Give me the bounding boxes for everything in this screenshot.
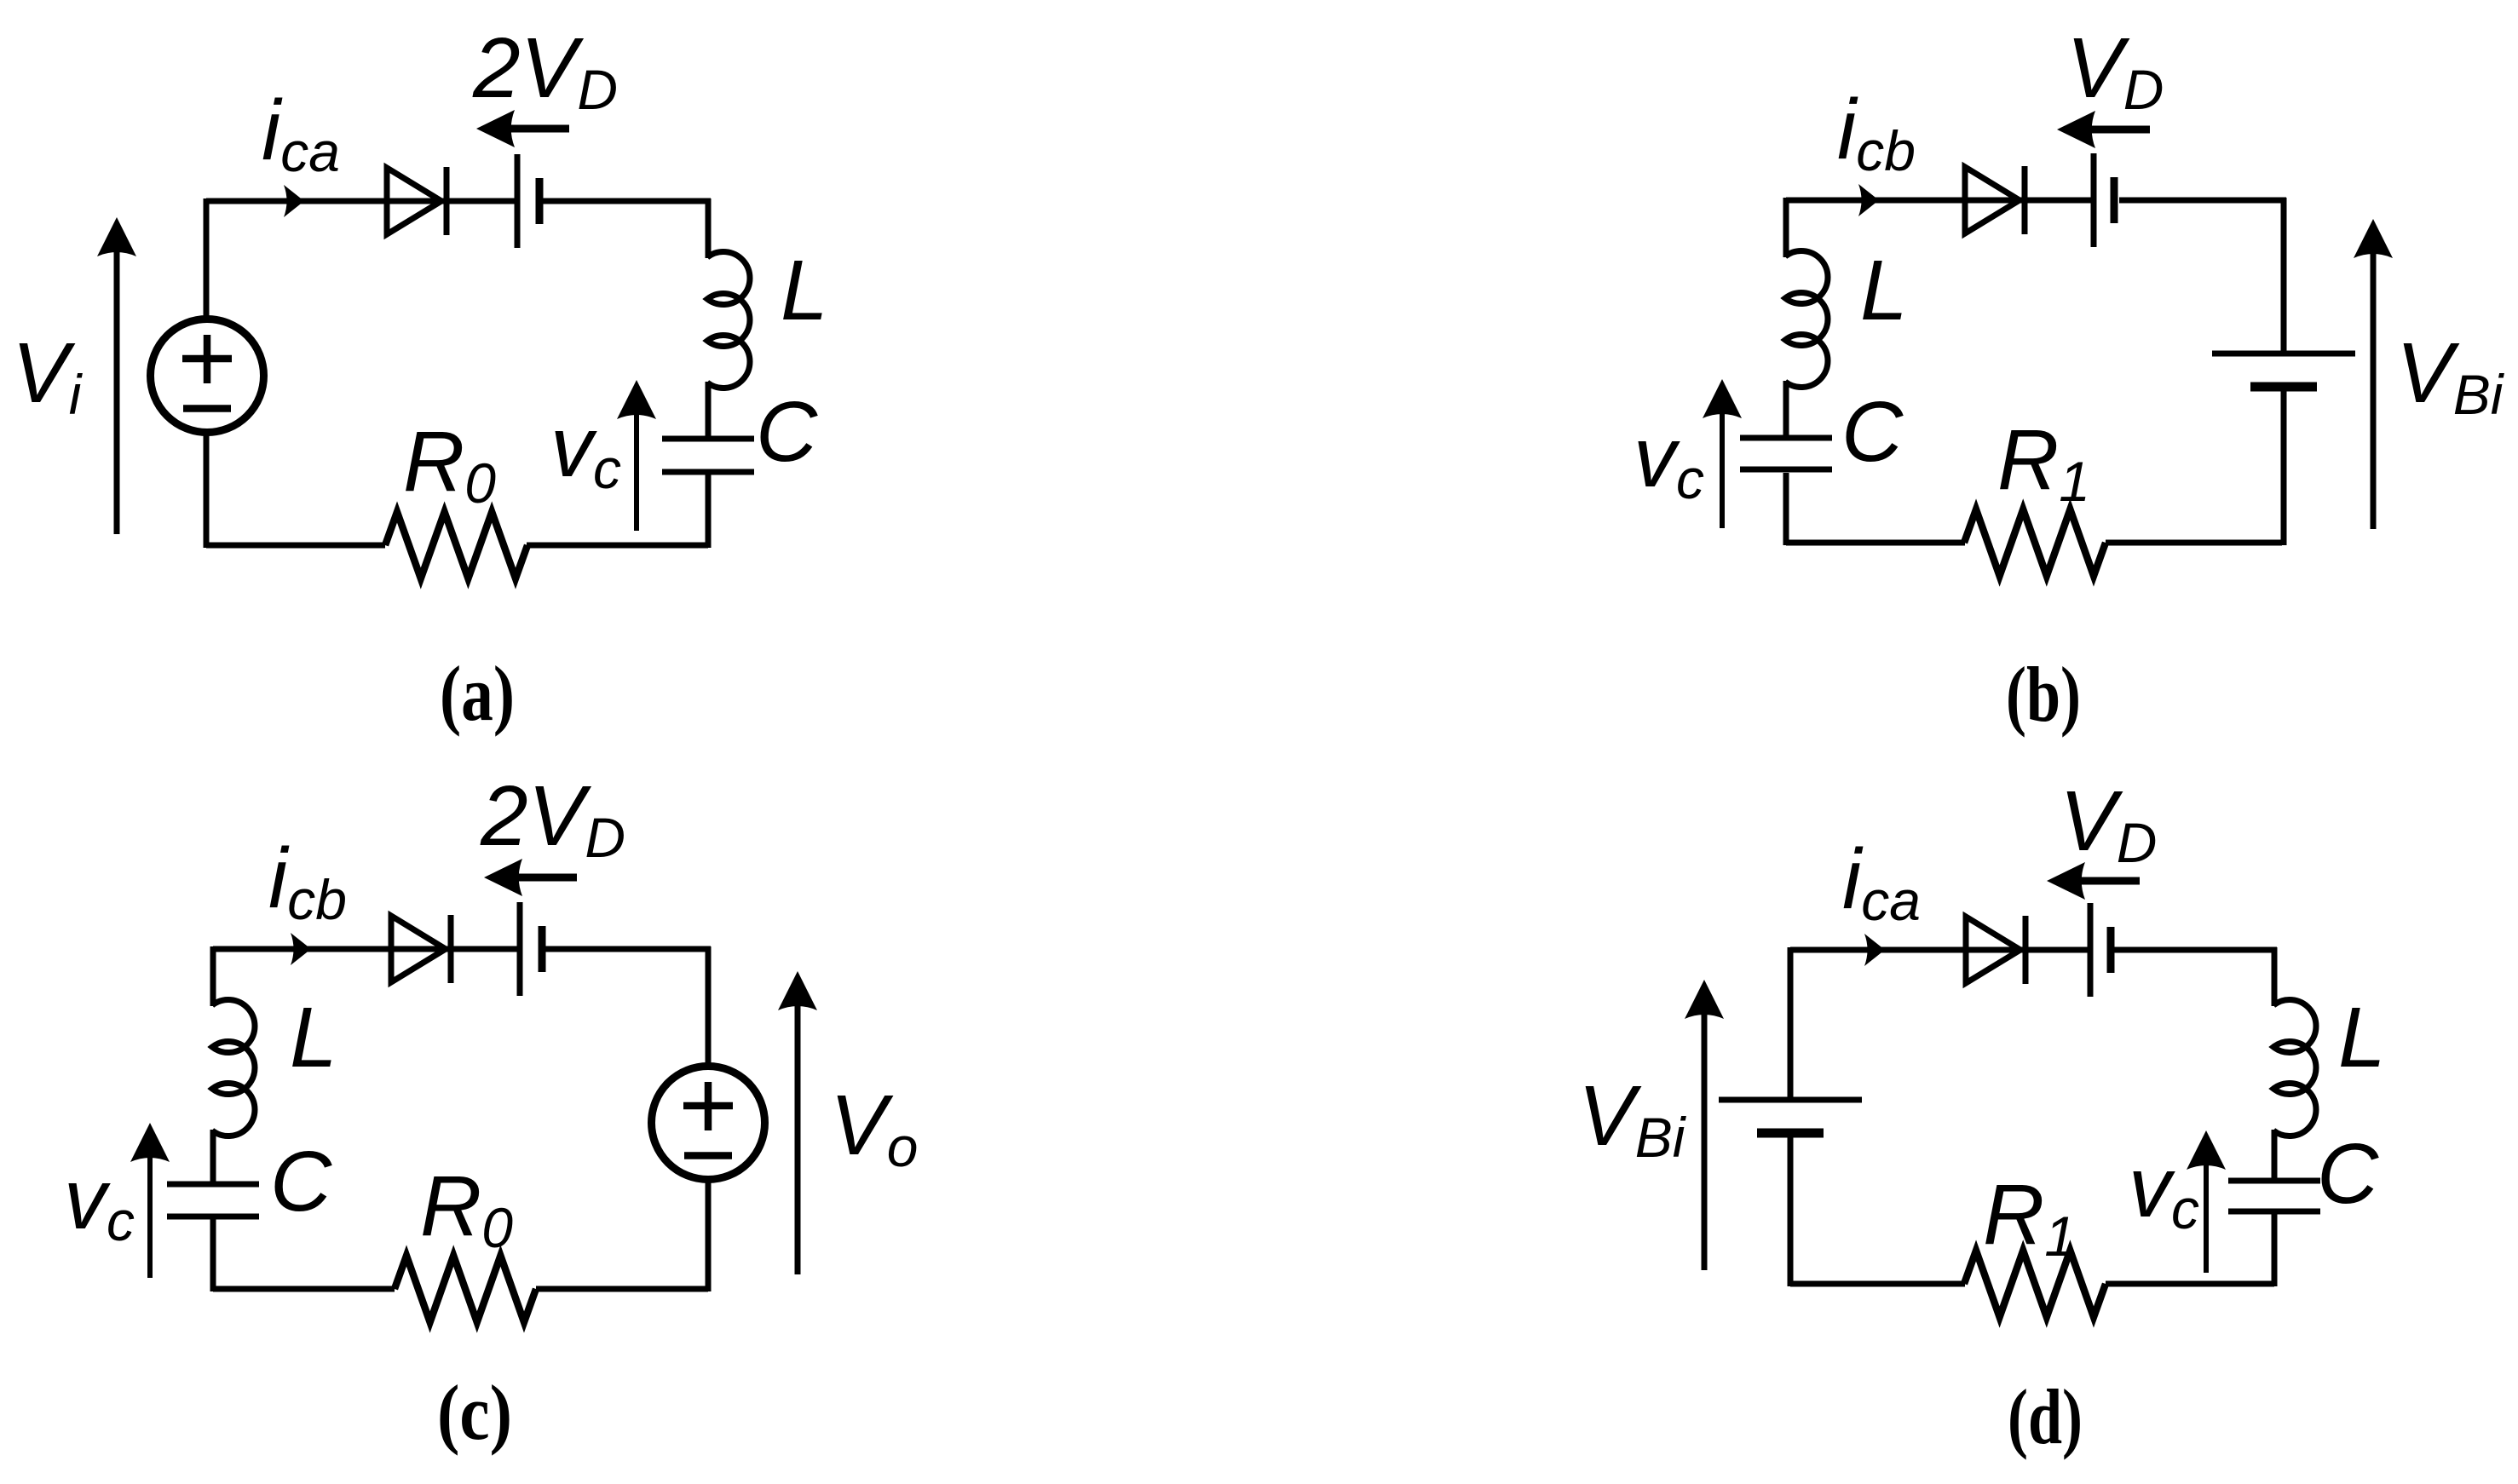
battery cell VD (diode drop source) xyxy=(2090,903,2111,997)
svg-text:L: L xyxy=(290,990,337,1085)
wire: (d) right wire mid (inductor to capacitor) xyxy=(2272,1130,2278,1178)
source Vi (independent voltage source, + top) xyxy=(151,319,264,433)
wire: (d) bottom wire right segment xyxy=(2106,1281,2274,1287)
wire: (b) left wire lower (capacitor to bottom) xyxy=(1783,473,1789,545)
wire: (b) left wire upper (to inductor) xyxy=(1783,198,1789,257)
svg-text:(b): (b) xyxy=(2006,651,2081,738)
inductor L xyxy=(1785,250,1828,387)
svg-text:(c): (c) xyxy=(437,1369,512,1456)
wire: (b) bottom wire left segment xyxy=(1786,540,1965,546)
svg-text:C: C xyxy=(270,1134,332,1229)
wire: (d) top wire left segment xyxy=(1790,947,2088,953)
wire: (b) right wire lower (battery to bottom) xyxy=(2281,390,2287,545)
capacitor C xyxy=(167,1184,259,1217)
arrow: v_c voltage reference (up) xyxy=(617,380,656,531)
arrow: current i_ca direction xyxy=(1864,934,1885,966)
wire: (c) left wire upper (to inductor) xyxy=(210,946,216,1006)
resistor R0 xyxy=(385,512,527,578)
wire: (a) bottom wire right segment xyxy=(527,543,708,549)
diode D (series diode, anode left) xyxy=(1966,916,2025,984)
wire: (b) top wire right segment xyxy=(2119,198,2286,204)
wire: (c) right wire lower (source to bottom) xyxy=(706,1180,712,1291)
battery VBi (storage battery) xyxy=(1719,1100,1862,1133)
resistor R1 xyxy=(1964,509,2106,576)
arrow: 2VD polarity (points left) xyxy=(484,859,577,896)
wire: (c) bottom wire right segment xyxy=(536,1286,708,1292)
diode D (series diode, anode left) xyxy=(1965,166,2025,234)
arrow: current i_cb direction xyxy=(1858,184,1879,216)
source Vo (output source, + top) xyxy=(652,1067,765,1180)
wire: (c) left wire lower (capacitor to bottom) xyxy=(210,1219,216,1291)
wire: (c) top wire right segment xyxy=(545,946,711,952)
wire: (a) right wire lower (capacitor to bottom) xyxy=(706,475,712,548)
wire: (c) left wire mid (inductor to capacitor) xyxy=(210,1130,216,1182)
diode D (series diode, anode left) xyxy=(387,167,447,235)
arrow: current i_ca direction xyxy=(284,185,304,217)
arrow: VD polarity (points left) xyxy=(2057,111,2150,148)
wire: (b) top wire left segment xyxy=(1786,198,2091,204)
wire: (d) bottom wire left segment xyxy=(1790,1281,1965,1287)
wire: (b) bottom wire right segment xyxy=(2106,540,2282,546)
svg-text:C: C xyxy=(1841,384,1904,480)
svg-text:C: C xyxy=(756,384,818,480)
battery cell VD (diode drop source) xyxy=(2094,153,2114,247)
battery cell 2VD (diode drop source) xyxy=(520,902,542,996)
battery cell 2VD (diode drop source) xyxy=(517,154,539,248)
arrow: v_c voltage reference (up) xyxy=(2187,1130,2226,1273)
arrow: VD polarity (points left) xyxy=(2047,862,2140,900)
svg-text:(a): (a) xyxy=(440,650,515,737)
resistor R1 xyxy=(1964,1251,2106,1317)
wire: (a) right wire mid (inductor to capacitor) xyxy=(706,382,712,436)
svg-text:(d): (d) xyxy=(2008,1373,2083,1460)
svg-text:L: L xyxy=(781,243,828,338)
wire: (d) right wire lower (capacitor to bottom) xyxy=(2272,1214,2278,1286)
wire: (a) top wire right segment xyxy=(543,198,711,204)
wire: (a) bottom wire left segment xyxy=(206,543,385,549)
svg-text:L: L xyxy=(1860,243,1908,338)
wire: (a) left wire upper (source Vi top lead) xyxy=(204,198,210,318)
wire: (c) right wire upper (to source Vo) xyxy=(706,946,712,1067)
arrow: current i_cb direction xyxy=(291,933,311,965)
capacitor C xyxy=(2228,1181,2320,1211)
wire: (a) left wire lower (source Vi bottom lead) xyxy=(204,434,210,548)
wire: (c) top wire left segment xyxy=(213,946,517,952)
inductor L xyxy=(2273,999,2316,1136)
arrow: Vi voltage reference (up) xyxy=(97,217,136,534)
diode D (series diode, anode left) xyxy=(391,915,451,983)
arrow: v_c voltage reference (up) xyxy=(130,1123,170,1278)
wire: (d) right wire upper (to inductor) xyxy=(2272,947,2278,1006)
inductor L xyxy=(707,252,750,388)
capacitor C xyxy=(1740,438,1832,469)
arrow: Vo voltage reference (up) xyxy=(778,971,817,1274)
arrow: VBi voltage reference (up) xyxy=(2354,219,2393,529)
svg-text:C: C xyxy=(2317,1126,2379,1222)
wire: (c) bottom wire left segment xyxy=(213,1286,395,1292)
inductor L xyxy=(212,999,255,1136)
wire: (d) top wire right segment xyxy=(2114,947,2277,953)
capacitor C xyxy=(662,439,754,472)
arrow: v_c voltage reference (up) xyxy=(1703,379,1742,528)
wire: (d) left wire upper (to battery VBi) xyxy=(1788,947,1794,1097)
wire: (a) right wire upper (to inductor) xyxy=(706,198,712,258)
wire: (b) left wire mid (inductor to capacitor) xyxy=(1783,381,1789,435)
svg-text:L: L xyxy=(2338,990,2386,1085)
arrow: VBi voltage reference (up) xyxy=(1685,980,1724,1270)
resistor R0 xyxy=(395,1256,536,1322)
wire: (d) left wire lower (battery to bottom) xyxy=(1788,1136,1794,1286)
wire: (a) top wire left segment xyxy=(206,198,515,204)
battery VBi (storage battery) xyxy=(2212,354,2355,387)
arrow: 2VD polarity (points left) xyxy=(476,110,569,147)
wire: (b) right wire upper (to battery VBi) xyxy=(2281,198,2287,351)
